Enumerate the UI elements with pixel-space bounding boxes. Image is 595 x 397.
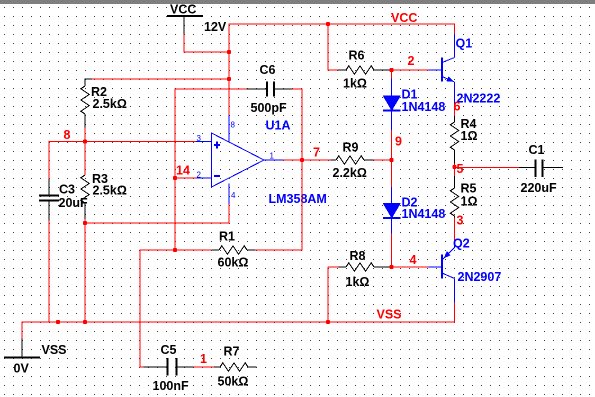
svg-text:1N4148: 1N4148 bbox=[402, 100, 446, 114]
svg-text:VCC: VCC bbox=[391, 11, 417, 25]
svg-text:3: 3 bbox=[197, 134, 202, 143]
wire VSS rail bbox=[22, 321, 455, 323]
svg-text:8: 8 bbox=[231, 121, 236, 130]
svg-text:2N2222: 2N2222 bbox=[457, 92, 501, 106]
svg-text:1: 1 bbox=[200, 352, 207, 366]
wire D1 to node 9 bbox=[391, 130, 393, 160]
wire 12V to riser bbox=[184, 34, 229, 52]
resistor R1 bbox=[212, 246, 255, 254]
diode D1 bbox=[383, 79, 401, 131]
svg-text:C3: C3 bbox=[59, 183, 75, 197]
capacitor C1 bbox=[519, 160, 563, 178]
wire node 5 to C1 bbox=[455, 167, 520, 169]
wire R8 drop to rail bbox=[327, 267, 329, 322]
resistor R9 bbox=[331, 156, 374, 164]
capacitor C3 bbox=[39, 179, 59, 221]
junction node 8 bbox=[83, 139, 87, 143]
junction R2 top bbox=[227, 77, 231, 81]
wire top VCC rail bbox=[228, 23, 454, 25]
resistor R5 bbox=[450, 176, 458, 218]
wire node 2 to Q1 base bbox=[392, 69, 429, 71]
junction R6 rail tap bbox=[326, 22, 330, 26]
svg-text:2: 2 bbox=[408, 54, 415, 68]
svg-text:C5: C5 bbox=[161, 343, 177, 357]
svg-text:14: 14 bbox=[176, 164, 190, 178]
svg-text:4: 4 bbox=[410, 253, 417, 267]
junction node 14 / R1 bbox=[173, 248, 177, 252]
junction node 2 bbox=[389, 68, 393, 72]
svg-text:1Ω: 1Ω bbox=[461, 195, 478, 209]
svg-text:1Ω: 1Ω bbox=[461, 129, 478, 143]
wire VCC riser x=229 bbox=[228, 24, 230, 115]
junction C3 rail bbox=[56, 320, 60, 324]
svg-text:1kΩ: 1kΩ bbox=[346, 275, 370, 289]
svg-text:VSS: VSS bbox=[377, 308, 402, 322]
svg-text:R1: R1 bbox=[219, 230, 235, 244]
svg-text:12V: 12V bbox=[204, 20, 227, 34]
svg-text:9: 9 bbox=[395, 135, 402, 149]
svg-text:60kΩ: 60kΩ bbox=[218, 256, 249, 270]
VCC power symbol bbox=[167, 16, 203, 34]
wire rail to Q1 collector bbox=[454, 23, 456, 34]
svg-text:8: 8 bbox=[64, 128, 71, 142]
svg-text:50kΩ: 50kΩ bbox=[218, 375, 249, 389]
svg-text:5: 5 bbox=[457, 162, 464, 176]
op-amp U1A triangle bbox=[196, 115, 283, 204]
wire node 4 to Q2 base bbox=[392, 266, 429, 268]
junction node 9 bbox=[389, 158, 393, 162]
wire node 7 riser C6/R1 bbox=[301, 88, 303, 250]
svg-text:3: 3 bbox=[457, 214, 464, 228]
resistor R4 bbox=[450, 116, 458, 164]
transistor Q1 bbox=[429, 34, 455, 106]
wire R3 top from node 8 bbox=[84, 142, 86, 176]
svg-text:VSS: VSS bbox=[42, 343, 67, 357]
junction R8 rail bbox=[326, 320, 330, 324]
svg-text:2: 2 bbox=[197, 171, 202, 180]
wire D2 to node 4 bbox=[391, 234, 393, 268]
wire node 8 left drop bbox=[48, 141, 50, 179]
svg-text:2.2kΩ: 2.2kΩ bbox=[333, 166, 367, 180]
junction node 7 bbox=[300, 158, 304, 162]
wire R9 to node 9 bbox=[374, 159, 392, 161]
capacitor C5 bbox=[144, 358, 194, 376]
wire node 2 to D1 bbox=[391, 70, 393, 79]
resistor R8 bbox=[339, 263, 390, 271]
junction R3 rail bbox=[83, 320, 87, 324]
wire C6 right bbox=[292, 88, 302, 90]
svg-text:C6: C6 bbox=[260, 63, 276, 77]
svg-text:Q2: Q2 bbox=[453, 237, 470, 251]
svg-text:1kΩ: 1kΩ bbox=[343, 77, 367, 91]
resistor R2 bbox=[81, 81, 89, 128]
wire node 1 bbox=[194, 366, 215, 368]
junction node 4 bbox=[389, 265, 393, 269]
svg-text:4: 4 bbox=[231, 191, 236, 200]
svg-text:1N4148: 1N4148 bbox=[402, 207, 446, 221]
svg-text:0V: 0V bbox=[14, 362, 30, 376]
resistor R3 bbox=[81, 175, 89, 219]
wire C5 feed drop bbox=[140, 249, 144, 367]
wire R5 to Q2 emitter node 3 bbox=[454, 218, 456, 243]
wire R6 drop from rail bbox=[328, 23, 338, 70]
wire node 9 to D2 bbox=[391, 160, 393, 187]
wire R2 bottom to node 8 bbox=[84, 128, 86, 142]
svg-text:VCC: VCC bbox=[170, 3, 196, 17]
wire node 5 vertical bbox=[454, 164, 456, 177]
diode D2 bbox=[383, 187, 401, 234]
svg-text:500pF: 500pF bbox=[251, 101, 287, 115]
wire Q2 collector to rail bbox=[454, 303, 456, 323]
wire R1 right to node 7 riser bbox=[255, 249, 303, 251]
svg-text:2.5kΩ: 2.5kΩ bbox=[93, 184, 127, 198]
svg-text:220uF: 220uF bbox=[521, 181, 557, 195]
svg-text:R8: R8 bbox=[350, 249, 366, 263]
wire C3 bottom to VSS rail bbox=[48, 221, 50, 323]
svg-text:LM358AM: LM358AM bbox=[269, 192, 327, 206]
svg-text:6: 6 bbox=[454, 100, 461, 114]
svg-text:R5: R5 bbox=[461, 182, 477, 196]
wire C6 left bbox=[174, 88, 246, 90]
wire R8 left bbox=[328, 266, 339, 268]
wire node 14 riser bbox=[174, 89, 176, 250]
junction 12V feed bbox=[227, 50, 231, 54]
capacitor C6 bbox=[247, 82, 293, 97]
svg-text:100nF: 100nF bbox=[153, 379, 189, 393]
svg-text:R9: R9 bbox=[343, 141, 359, 155]
wire op-amp pin4 to R3 bottom bbox=[85, 204, 229, 223]
svg-text:2.5kΩ: 2.5kΩ bbox=[93, 97, 127, 111]
wire rail to ground bbox=[21, 321, 23, 338]
wire R2 top to riser bbox=[92, 78, 229, 80]
junction node 14 bbox=[173, 176, 177, 180]
svg-text:R7: R7 bbox=[224, 345, 240, 359]
resistor R6 bbox=[338, 66, 390, 74]
junction node 5 bbox=[452, 165, 456, 169]
svg-text:Q1: Q1 bbox=[456, 37, 473, 51]
ground symbol VSS bbox=[4, 339, 40, 358]
wire node 8 horizontal to op-amp bbox=[49, 141, 197, 143]
wire Q1 emitter to node 6 bbox=[454, 106, 456, 116]
wire node 14 to inverting input bbox=[175, 177, 197, 179]
svg-text:C1: C1 bbox=[529, 143, 545, 157]
junction R3/pin4 node bbox=[83, 221, 87, 225]
svg-text:R6: R6 bbox=[349, 49, 365, 63]
wire R1 left from node 14 bbox=[140, 249, 212, 251]
svg-text:U1A: U1A bbox=[266, 119, 291, 133]
svg-text:2N2907: 2N2907 bbox=[458, 270, 502, 284]
transistor Q2 bbox=[429, 242, 455, 303]
wire op-amp output bbox=[283, 159, 331, 161]
svg-text:7: 7 bbox=[313, 146, 320, 160]
svg-text:1: 1 bbox=[270, 152, 275, 161]
resistor R7 bbox=[214, 363, 257, 371]
wire R3 bottom to VSS rail bbox=[84, 219, 86, 322]
